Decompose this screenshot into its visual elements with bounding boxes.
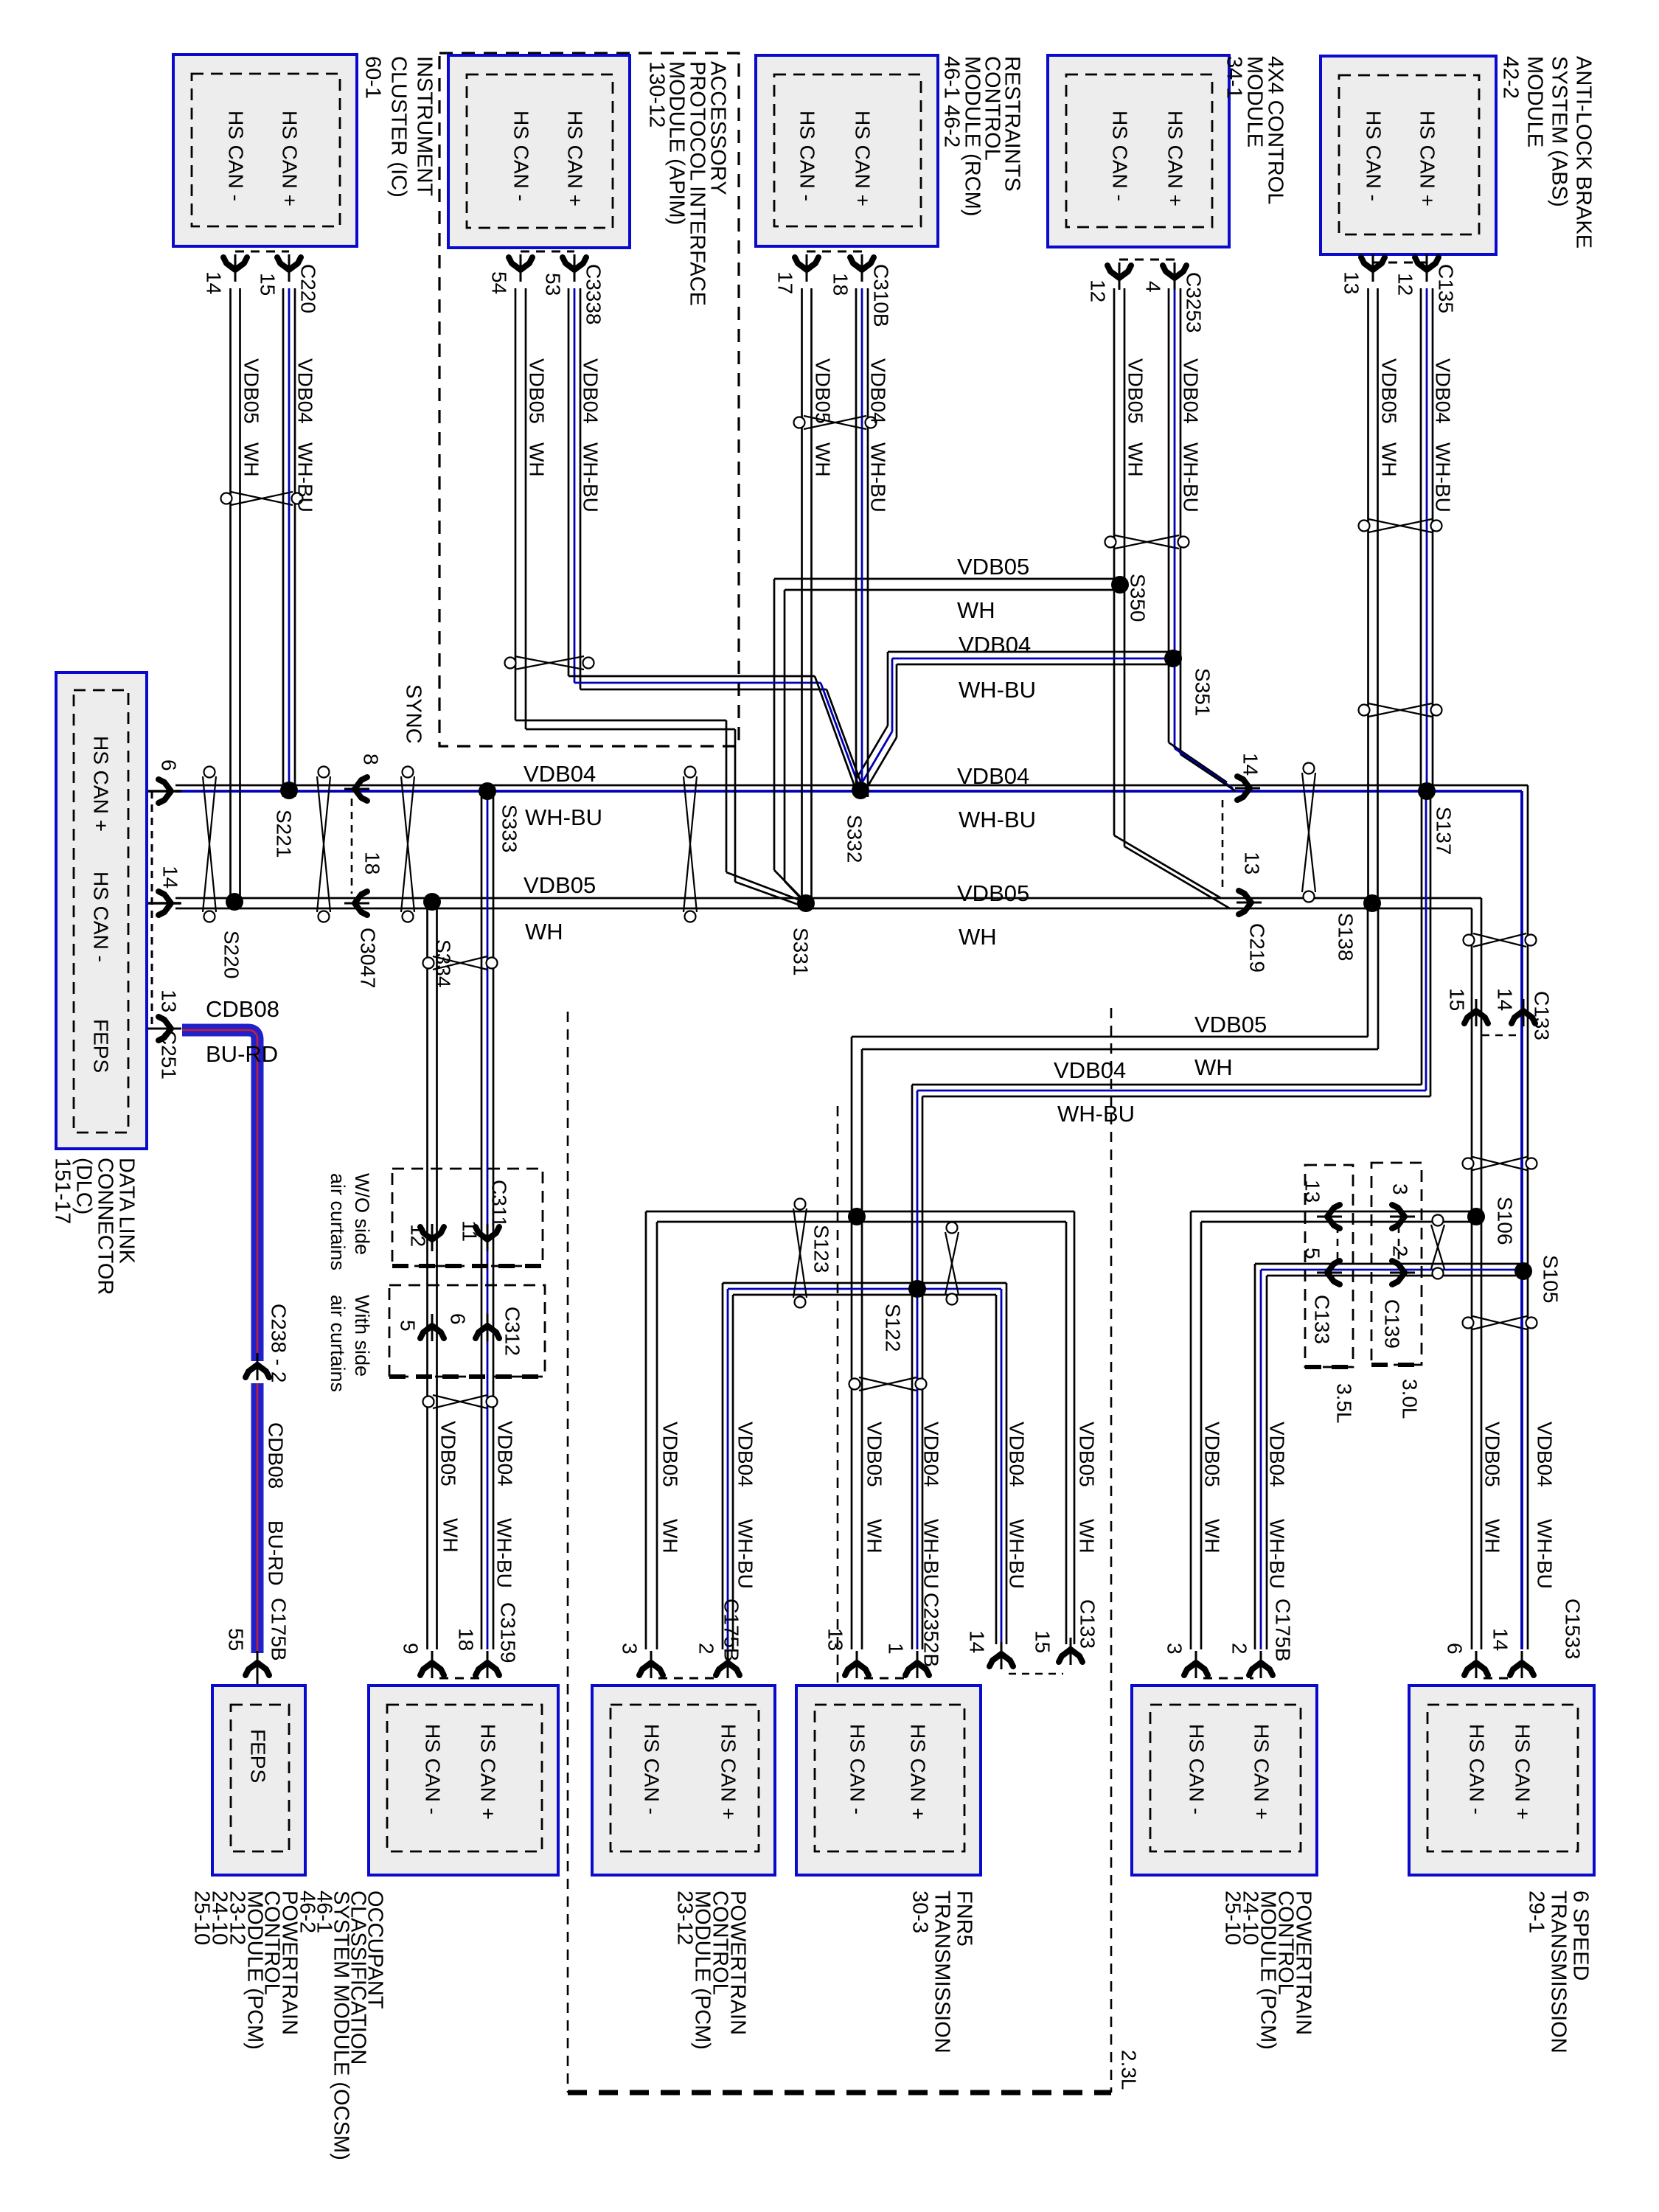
svg-text:S334: S334 bbox=[432, 939, 455, 987]
svg-text:WH-BU: WH-BU bbox=[580, 442, 602, 512]
svg-text:VDB04: VDB04 bbox=[734, 1422, 757, 1487]
svg-text:130-12: 130-12 bbox=[644, 61, 668, 128]
svg-text:C220: C220 bbox=[297, 264, 320, 313]
svg-text:15: 15 bbox=[1032, 1630, 1054, 1653]
svg-text:VDB04: VDB04 bbox=[867, 358, 890, 424]
svg-text:5: 5 bbox=[1301, 1248, 1324, 1259]
svg-text:1: 1 bbox=[885, 1643, 908, 1655]
svg-text:WH-BU: WH-BU bbox=[525, 804, 602, 830]
svg-text:HS CAN -: HS CAN - bbox=[510, 111, 533, 201]
svg-text:VDB05: VDB05 bbox=[524, 872, 596, 898]
svg-text:14: 14 bbox=[1489, 1628, 1512, 1651]
twisted pair symbol 6-speed wires lower bbox=[1463, 1318, 1474, 1329]
svg-text:12: 12 bbox=[1087, 279, 1110, 302]
svg-text:air curtains: air curtains bbox=[327, 1295, 349, 1392]
svg-text:C238 - 2: C238 - 2 bbox=[268, 1304, 291, 1382]
svg-text:C312: C312 bbox=[501, 1307, 524, 1356]
C312 connector (with side air curtains) dashed box bbox=[389, 1285, 545, 1377]
svg-text:VDB04: VDB04 bbox=[494, 1421, 517, 1486]
anti-lock brake system ABS module box bbox=[1321, 56, 1496, 254]
splice S138 bbox=[1363, 894, 1381, 912]
svg-text:VDB04: VDB04 bbox=[1266, 1422, 1289, 1487]
svg-text:25-10: 25-10 bbox=[189, 1891, 213, 1945]
svg-text:MODULE: MODULE bbox=[1523, 56, 1546, 147]
svg-text:HS CAN +: HS CAN + bbox=[1164, 111, 1187, 206]
splice S137 bbox=[1418, 782, 1436, 800]
svg-text:WH-BU: WH-BU bbox=[1006, 1519, 1029, 1589]
svg-text:C3253: C3253 bbox=[1183, 272, 1206, 333]
svg-text:WH: WH bbox=[1201, 1519, 1224, 1554]
svg-text:13: 13 bbox=[1340, 271, 1363, 294]
svg-text:CDB08: CDB08 bbox=[265, 1422, 288, 1489]
svg-text:55: 55 bbox=[225, 1628, 248, 1651]
svg-text:8: 8 bbox=[360, 754, 383, 765]
svg-text:FEPS: FEPS bbox=[90, 1019, 113, 1073]
splice S334 bbox=[423, 893, 441, 911]
svg-text:C310B: C310B bbox=[870, 264, 893, 327]
svg-text:30-3: 30-3 bbox=[908, 1891, 931, 1933]
wire PCM(24-10) VDB05 riser / S106 run bbox=[1191, 1211, 1481, 1213]
splice S123 bbox=[848, 1208, 866, 1225]
svg-text:46-2: 46-2 bbox=[295, 1891, 319, 1933]
svg-text:HS CAN -: HS CAN - bbox=[641, 1724, 664, 1815]
svg-text:WH-BU: WH-BU bbox=[493, 1518, 516, 1588]
wire APIM VDB05 route to S331 bbox=[515, 288, 517, 720]
twisted pair symbol 6-speed wires upper bbox=[1463, 1158, 1474, 1169]
svg-text:6: 6 bbox=[447, 1313, 470, 1325]
svg-text:VDB05: VDB05 bbox=[659, 1422, 682, 1487]
svg-text:6: 6 bbox=[1444, 1643, 1467, 1655]
svg-text:5: 5 bbox=[397, 1320, 420, 1332]
variant dashed line left (W/O-With side air curtains) bbox=[567, 1012, 569, 2093]
twisted pair symbol bus at x284 bbox=[204, 767, 215, 778]
wire VDB04 bus (CAN+) black line bbox=[175, 785, 1528, 787]
svg-text:14: 14 bbox=[159, 866, 182, 888]
twisted pair symbol below C312 bbox=[423, 1397, 434, 1408]
6speed C1533 connector arrows bbox=[1464, 1663, 1488, 1675]
twisted pair symbol S333/S334 drops bbox=[423, 958, 434, 969]
svg-text:HS CAN +: HS CAN + bbox=[1251, 1724, 1273, 1820]
powertrain control module PCM 23-12 box bbox=[592, 1686, 775, 1875]
svg-text:DATA LINK: DATA LINK bbox=[114, 1158, 138, 1265]
svg-text:BU-RD: BU-RD bbox=[206, 1041, 278, 1067]
svg-text:VDB04: VDB04 bbox=[580, 358, 602, 424]
svg-text:HS CAN +: HS CAN + bbox=[90, 736, 113, 832]
svg-text:29-1: 29-1 bbox=[1524, 1891, 1548, 1933]
svg-text:C3159: C3159 bbox=[497, 1602, 520, 1663]
instrument cluster IC box bbox=[173, 55, 357, 246]
svg-text:HS CAN +: HS CAN + bbox=[717, 1724, 740, 1820]
svg-text:HS CAN -: HS CAN - bbox=[1186, 1724, 1208, 1815]
svg-text:VDB04: VDB04 bbox=[1054, 1057, 1126, 1083]
svg-text:S331: S331 bbox=[790, 928, 813, 975]
svg-text:WH-BU: WH-BU bbox=[1180, 442, 1203, 512]
OCSM C3159 connector arrows bbox=[420, 1663, 444, 1675]
svg-text:VDB04: VDB04 bbox=[1432, 358, 1455, 424]
svg-text:WH-BU: WH-BU bbox=[734, 1519, 757, 1589]
svg-text:(DLC): (DLC) bbox=[72, 1158, 95, 1214]
svg-text:46-1 46-2: 46-1 46-2 bbox=[939, 56, 963, 147]
svg-text:60-1: 60-1 bbox=[361, 56, 384, 99]
twisted pair symbol bus right of C219 bbox=[1304, 763, 1315, 774]
svg-text:2: 2 bbox=[1228, 1643, 1251, 1655]
wire ABS VDB05 to S138 bbox=[1367, 288, 1369, 898]
svg-text:6: 6 bbox=[158, 759, 181, 771]
svg-text:VDB05: VDB05 bbox=[863, 1422, 886, 1487]
svg-text:TRANSMISSION: TRANSMISSION bbox=[1546, 1891, 1570, 2053]
svg-text:VDB04: VDB04 bbox=[920, 1422, 943, 1487]
svg-text:15: 15 bbox=[1446, 988, 1469, 1011]
svg-text:WH-BU: WH-BU bbox=[1266, 1519, 1289, 1589]
svg-text:ANTI-LOCK BRAKE: ANTI-LOCK BRAKE bbox=[1571, 56, 1595, 248]
svg-text:HS CAN -: HS CAN - bbox=[90, 872, 113, 962]
svg-text:14: 14 bbox=[203, 271, 226, 294]
svg-text:HS CAN +: HS CAN + bbox=[477, 1724, 500, 1820]
wire DLC FEPS stub bbox=[147, 1028, 177, 1030]
svg-text:14: 14 bbox=[1494, 988, 1517, 1011]
RCM C310B connector arrows bbox=[795, 257, 818, 270]
svg-text:VDB05: VDB05 bbox=[437, 1421, 460, 1486]
svg-text:VDB05: VDB05 bbox=[1194, 1012, 1267, 1037]
splice S220 bbox=[226, 893, 243, 911]
svg-text:VDB04: VDB04 bbox=[294, 358, 317, 424]
svg-text:S220: S220 bbox=[220, 931, 243, 978]
C133 connector arrows (to lower section) bbox=[1464, 1011, 1488, 1023]
svg-text:VDB05: VDB05 bbox=[1076, 1422, 1099, 1487]
svg-text:C135: C135 bbox=[1435, 264, 1458, 313]
svg-text:WH: WH bbox=[240, 442, 263, 477]
svg-text:53: 53 bbox=[542, 273, 565, 296]
C312 arrows bbox=[420, 1326, 444, 1338]
C133/C139 3.5L/3.0L row arrows bbox=[1327, 1205, 1340, 1228]
svg-text:18: 18 bbox=[361, 852, 384, 874]
twisted pair symbol left of S123/S122 bbox=[795, 1199, 806, 1210]
svg-text:15: 15 bbox=[257, 273, 279, 296]
svg-text:S105: S105 bbox=[1540, 1255, 1562, 1303]
svg-text:air curtains: air curtains bbox=[327, 1173, 349, 1270]
svg-text:WH-BU: WH-BU bbox=[294, 442, 317, 512]
wire IC VDB05 to S220 bbox=[229, 288, 232, 908]
wire IC VDB04 to S221 bbox=[282, 288, 285, 797]
svg-text:14: 14 bbox=[966, 1630, 989, 1653]
wire PCM(24-10) VDB04 riser / S105 run bbox=[1255, 1263, 1528, 1265]
svg-text:WH-BU: WH-BU bbox=[867, 442, 890, 512]
svg-text:VDB05: VDB05 bbox=[1201, 1422, 1224, 1487]
svg-text:VDB04: VDB04 bbox=[1006, 1422, 1029, 1487]
splice S332 bbox=[852, 782, 869, 799]
svg-text:C175B: C175B bbox=[268, 1598, 291, 1661]
svg-text:S138: S138 bbox=[1335, 913, 1357, 961]
svg-text:HS CAN +: HS CAN + bbox=[907, 1724, 930, 1820]
svg-text:S350: S350 bbox=[1127, 574, 1150, 622]
accessory protocol interface module APIM box bbox=[448, 55, 630, 248]
svg-text:HS CAN -: HS CAN - bbox=[846, 1724, 869, 1815]
svg-text:C219: C219 bbox=[1246, 923, 1269, 973]
svg-text:VDB05: VDB05 bbox=[1378, 358, 1401, 424]
C311 connector (W/O side air curtains) dashed box bbox=[392, 1169, 543, 1266]
svg-text:TRANSMISSION: TRANSMISSION bbox=[930, 1891, 953, 2053]
twisted pair symbol RCM wires bbox=[794, 417, 805, 428]
splice S106 bbox=[1467, 1208, 1485, 1225]
svg-text:25-10: 25-10 bbox=[1220, 1891, 1244, 1945]
svg-text:HS CAN -: HS CAN - bbox=[422, 1724, 445, 1815]
svg-text:18: 18 bbox=[455, 1628, 478, 1651]
twisted pair symbol bus at x439 bbox=[319, 767, 330, 778]
variant dashed bottom (2.3L region) bbox=[568, 2090, 1111, 2096]
PCM-FEPS pin55 connector arrows bbox=[246, 1663, 269, 1675]
C219 connector arrows on buses bbox=[1237, 776, 1250, 800]
wire S350 run (RCM/4X4 CAN-) bbox=[774, 578, 1124, 580]
IC C220 connector arrows bbox=[223, 257, 247, 270]
svg-text:C139: C139 bbox=[1381, 1299, 1404, 1349]
splice S221 bbox=[280, 782, 298, 799]
svg-text:9: 9 bbox=[400, 1643, 422, 1655]
svg-text:VDB05: VDB05 bbox=[240, 358, 263, 424]
svg-text:C133: C133 bbox=[1077, 1599, 1099, 1649]
svg-text:WH: WH bbox=[1194, 1054, 1233, 1080]
svg-text:WH-BU: WH-BU bbox=[1432, 442, 1455, 512]
svg-text:12: 12 bbox=[407, 1224, 430, 1247]
svg-text:HS CAN +: HS CAN + bbox=[852, 111, 874, 206]
svg-text:C3338: C3338 bbox=[582, 264, 605, 325]
svg-text:C3047: C3047 bbox=[357, 928, 380, 989]
svg-text:S123: S123 bbox=[810, 1225, 833, 1273]
svg-text:FNR5: FNR5 bbox=[952, 1891, 975, 1947]
wire S138 branch down-left to S123 bbox=[1367, 903, 1369, 1037]
DLC C251 connector arrows bbox=[159, 779, 171, 803]
wire VDB05 bus (CAN-) upper line bbox=[175, 897, 1481, 900]
twisted pair symbol FNR5 wires bbox=[849, 1379, 860, 1390]
svg-text:VDB05: VDB05 bbox=[957, 880, 1029, 906]
splice S122 bbox=[908, 1280, 926, 1298]
svg-text:C133: C133 bbox=[1531, 991, 1554, 1040]
svg-text:6 SPEED: 6 SPEED bbox=[1568, 1891, 1592, 1981]
svg-text:HS CAN -: HS CAN - bbox=[1466, 1724, 1489, 1815]
svg-text:WH-BU: WH-BU bbox=[920, 1519, 943, 1589]
svg-text:VDB05: VDB05 bbox=[812, 358, 835, 424]
C133 connector (3.5L) dashed box bbox=[1305, 1165, 1353, 1367]
svg-text:VDB04: VDB04 bbox=[524, 761, 596, 787]
C311 arrows bbox=[420, 1227, 444, 1239]
wire VDB05 bus (CAN-) lower line bbox=[175, 908, 1472, 910]
svg-text:11: 11 bbox=[459, 1220, 481, 1242]
splice S105 bbox=[1514, 1262, 1532, 1280]
svg-text:S122: S122 bbox=[882, 1304, 905, 1352]
C139 connector (3.0L) dashed box bbox=[1371, 1163, 1422, 1365]
FNR5 2.3L C133 arrows bbox=[990, 1654, 1013, 1666]
svg-text:CLUSTER (IC): CLUSTER (IC) bbox=[386, 56, 410, 198]
svg-text:VDB05: VDB05 bbox=[1124, 358, 1147, 424]
twisted pair symbol ABS wires upper bbox=[1359, 521, 1370, 532]
svg-text:VDB05: VDB05 bbox=[526, 358, 549, 424]
wire RCM VDB05 to S331 bbox=[801, 288, 803, 908]
svg-text:C2352B: C2352B bbox=[920, 1593, 943, 1667]
svg-text:23-12: 23-12 bbox=[672, 1891, 696, 1945]
splice S331 bbox=[797, 894, 815, 912]
svg-text:CONNECTOR: CONNECTOR bbox=[93, 1158, 116, 1295]
splice S333 bbox=[479, 782, 496, 800]
wire S334 drop to OCSM pin 9 bbox=[426, 908, 428, 1649]
svg-text:3: 3 bbox=[1389, 1183, 1412, 1195]
twisted pair symbol 4X4 wires bbox=[1105, 537, 1116, 548]
restraints control module RCM box bbox=[756, 55, 938, 246]
splice S350 bbox=[1111, 576, 1129, 594]
svg-text:17: 17 bbox=[774, 271, 797, 294]
wire APIM VDB04 route to S332 bbox=[568, 288, 570, 676]
svg-text:HS CAN +: HS CAN + bbox=[564, 111, 587, 206]
svg-text:With side: With side bbox=[351, 1295, 373, 1377]
FNR5 transmission box bbox=[796, 1686, 981, 1875]
svg-text:WH: WH bbox=[525, 919, 563, 945]
powertrain control module PCM 24-10 box bbox=[1132, 1686, 1317, 1875]
svg-text:2.3L: 2.3L bbox=[1118, 2050, 1141, 2090]
svg-text:151-17: 151-17 bbox=[50, 1158, 74, 1224]
svg-text:VDB05: VDB05 bbox=[1481, 1422, 1504, 1487]
variant dashed line middle bbox=[837, 1106, 839, 1686]
svg-text:FEPS: FEPS bbox=[247, 1729, 270, 1783]
svg-text:VDB04: VDB04 bbox=[1534, 1422, 1557, 1487]
svg-text:WH-BU: WH-BU bbox=[1057, 1101, 1135, 1127]
wire VDB04 bus (CAN+) blue line bbox=[175, 790, 1522, 793]
svg-text:C251: C251 bbox=[158, 1030, 181, 1079]
svg-text:3: 3 bbox=[1164, 1643, 1186, 1655]
svg-text:C1533: C1533 bbox=[1562, 1599, 1585, 1660]
svg-text:3.0L: 3.0L bbox=[1399, 1379, 1422, 1419]
wire S137 branch down-left to S122 (VDB04) bbox=[1421, 791, 1423, 1085]
svg-text:BU-RD: BU-RD bbox=[265, 1520, 288, 1586]
svg-text:VDB05: VDB05 bbox=[957, 554, 1029, 580]
wire ABS VDB04 to S137 bbox=[1420, 288, 1422, 791]
twisted pair symbol right of S122 bbox=[947, 1222, 958, 1234]
svg-text:HS CAN -: HS CAN - bbox=[225, 111, 248, 201]
svg-text:4: 4 bbox=[1142, 281, 1165, 293]
FNR5 C2352B connector arrows bbox=[845, 1663, 869, 1675]
svg-text:WH: WH bbox=[526, 442, 549, 477]
wire FEPS pin55 lead bbox=[257, 1653, 259, 1705]
svg-text:C175B: C175B bbox=[720, 1599, 743, 1662]
svg-text:2: 2 bbox=[1389, 1245, 1412, 1257]
svg-text:HS CAN +: HS CAN + bbox=[1416, 111, 1439, 206]
svg-text:13: 13 bbox=[824, 1628, 847, 1651]
svg-text:3.5L: 3.5L bbox=[1333, 1383, 1356, 1424]
wire CDB08 BU-RD thick FEPS wire bbox=[182, 1030, 257, 1361]
C238-2 inline connector arrow on CDB08 bbox=[246, 1365, 269, 1377]
twisted pair symbol bus at x936 bbox=[685, 767, 696, 778]
svg-text:S106: S106 bbox=[1494, 1197, 1517, 1245]
svg-text:13: 13 bbox=[158, 990, 181, 1012]
splice S351 bbox=[1164, 650, 1182, 667]
twisted pair symbol APIM wires bbox=[505, 658, 516, 669]
svg-text:WH: WH bbox=[863, 1519, 886, 1554]
PCM24 C175B connector arrows bbox=[1184, 1663, 1208, 1675]
svg-text:S137: S137 bbox=[1433, 807, 1455, 855]
svg-text:WH: WH bbox=[957, 597, 995, 623]
svg-text:WH-BU: WH-BU bbox=[1534, 1519, 1557, 1589]
svg-text:WH: WH bbox=[659, 1519, 682, 1554]
powertrain control module PCM (FEPS) box bbox=[212, 1686, 305, 1875]
variant dashed line right (2.3L) bbox=[1110, 1008, 1113, 2093]
svg-text:WH: WH bbox=[1378, 442, 1401, 477]
twisted pair symbol below S138/S137 drops bbox=[1464, 935, 1475, 946]
svg-text:S333: S333 bbox=[498, 804, 521, 852]
svg-text:WH: WH bbox=[439, 1518, 462, 1553]
svg-text:WH-BU: WH-BU bbox=[959, 807, 1036, 832]
svg-text:SYSTEM (ABS): SYSTEM (ABS) bbox=[1547, 56, 1571, 207]
svg-text:HS CAN -: HS CAN - bbox=[1109, 111, 1132, 201]
wire RCM VDB04 to S332 bbox=[855, 288, 858, 797]
svg-text:INSTRUMENT: INSTRUMENT bbox=[412, 56, 436, 196]
4X4 C3253 connector arrows bbox=[1107, 265, 1131, 278]
twisted pair symbol IC wires bbox=[221, 493, 232, 504]
twisted pair symbol S106/S105 runs bbox=[1433, 1215, 1444, 1226]
svg-text:VDB04: VDB04 bbox=[1180, 358, 1203, 424]
wire DLC HS CAN+ stub bbox=[147, 790, 181, 793]
C3047 connector arrows on buses bbox=[355, 777, 367, 801]
svg-text:2: 2 bbox=[695, 1643, 718, 1655]
svg-text:54: 54 bbox=[488, 271, 511, 294]
twisted pair symbol ABS wires lower bbox=[1359, 705, 1370, 716]
wire 4X4 VDB04 riser through S351 bbox=[1168, 288, 1170, 742]
data link connector DLC box bbox=[56, 672, 147, 1149]
svg-text:VDB04: VDB04 bbox=[959, 632, 1031, 658]
occupant classification system module OCSM box bbox=[369, 1686, 558, 1875]
svg-text:13: 13 bbox=[1301, 1180, 1324, 1203]
wire 4X4 VDB05 riser through S350 bbox=[1113, 288, 1116, 835]
svg-text:42-2: 42-2 bbox=[1498, 56, 1522, 99]
svg-text:18: 18 bbox=[829, 273, 852, 296]
4X4 control module box bbox=[1048, 55, 1229, 247]
twisted pair symbol bus at x553 bbox=[403, 767, 414, 778]
svg-text:C133: C133 bbox=[1311, 1295, 1334, 1344]
wire S351 run (CAN+) bbox=[888, 651, 1180, 653]
svg-text:12: 12 bbox=[1394, 273, 1417, 296]
svg-text:WH: WH bbox=[812, 442, 835, 477]
wire S122 horizontal run bbox=[723, 1282, 1006, 1284]
svg-text:HS CAN -: HS CAN - bbox=[796, 111, 819, 201]
APIM C3338 connector arrows bbox=[509, 257, 532, 270]
svg-text:SYNC: SYNC bbox=[401, 684, 425, 744]
svg-text:HS CAN +: HS CAN + bbox=[1512, 1724, 1534, 1820]
wire S333 drop to OCSM pin 18 bbox=[481, 797, 483, 1649]
svg-text:14: 14 bbox=[1239, 753, 1262, 776]
svg-text:WH: WH bbox=[959, 924, 997, 950]
svg-text:WH-BU: WH-BU bbox=[959, 677, 1036, 703]
svg-text:HS CAN -: HS CAN - bbox=[1363, 111, 1385, 201]
APIM outer dashed box bbox=[439, 53, 739, 746]
svg-text:WH: WH bbox=[1124, 442, 1147, 477]
6 speed transmission box bbox=[1409, 1686, 1594, 1875]
wire S123 horizontal run bbox=[646, 1211, 1074, 1213]
svg-text:HS CAN +: HS CAN + bbox=[279, 111, 302, 206]
svg-text:VDB04: VDB04 bbox=[957, 763, 1029, 789]
svg-text:WH: WH bbox=[1481, 1519, 1504, 1554]
svg-text:C311: C311 bbox=[488, 1180, 511, 1228]
wire DLC HS CAN- stub bbox=[147, 902, 181, 905]
svg-text:34-1: 34-1 bbox=[1222, 56, 1245, 99]
svg-text:13: 13 bbox=[1241, 852, 1264, 874]
svg-text:WH: WH bbox=[1076, 1519, 1099, 1554]
svg-text:S221: S221 bbox=[273, 810, 296, 858]
ABS C135 connector arrows bbox=[1361, 257, 1385, 270]
svg-text:3: 3 bbox=[619, 1643, 641, 1655]
PCM23 C175B connector arrows bbox=[639, 1663, 663, 1675]
svg-text:S332: S332 bbox=[844, 815, 866, 863]
svg-text:C175B: C175B bbox=[1272, 1599, 1295, 1662]
svg-text:CDB08: CDB08 bbox=[206, 996, 279, 1022]
svg-text:S351: S351 bbox=[1192, 668, 1214, 716]
svg-text:W/O side: W/O side bbox=[351, 1173, 373, 1255]
